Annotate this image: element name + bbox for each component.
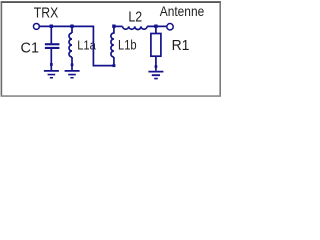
svg-text:L2: L2	[128, 10, 142, 26]
svg-text:Antenne: Antenne	[160, 4, 204, 19]
pin dot C1 ground	[50, 63, 53, 66]
junction dot L1a/rail	[70, 25, 73, 28]
inductor L2	[123, 26, 148, 29]
wire up to L1b	[113, 57, 115, 66]
wire rail 2 left stub	[114, 25, 123, 27]
inductor L1b	[111, 26, 114, 57]
svg-text:C1: C1	[21, 40, 40, 56]
wire R1 top	[155, 26, 157, 33]
wire drop at rail1 end	[92, 26, 94, 65]
terminal TRX	[33, 23, 39, 29]
junction dot C1/rail	[50, 25, 53, 28]
wire top rail 1	[40, 25, 95, 27]
wire bottom run	[93, 65, 114, 67]
wire rail 2 right	[147, 25, 166, 27]
wire C1 top	[50, 26, 52, 43]
capacitor C1 plate top	[45, 43, 60, 45]
wire R1 bottom	[155, 56, 157, 70]
pin dot R1 ground	[155, 65, 158, 68]
junction dot R1/rail2	[154, 25, 157, 28]
svg-text:TRX: TRX	[34, 5, 59, 21]
ground L1a	[65, 70, 80, 79]
ground R1	[148, 71, 163, 80]
capacitor C1 plate bottom	[45, 47, 60, 49]
pin dot L1a ground	[71, 63, 74, 66]
wire C1 bottom	[50, 49, 52, 70]
svg-text:L1b: L1b	[118, 38, 137, 53]
wire L1a top	[71, 26, 73, 33]
resistor R1	[151, 34, 161, 57]
ground C1	[44, 70, 59, 79]
wire L1a bottom	[71, 57, 73, 70]
inductor L1a	[69, 33, 72, 57]
svg-text:R1: R1	[172, 38, 190, 54]
junction dot L1b/rail2	[112, 25, 115, 28]
junction dot L1b bottom corner	[113, 64, 116, 67]
terminal Antenne	[167, 24, 173, 30]
